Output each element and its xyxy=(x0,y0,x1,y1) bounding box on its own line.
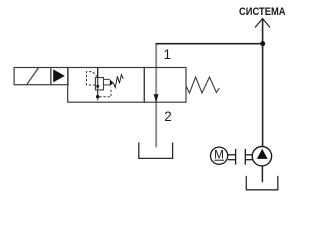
pilot actuator triangle xyxy=(53,69,65,82)
valve envelope left position xyxy=(68,68,145,103)
drain junction dot xyxy=(96,95,99,98)
pilot relief flow arrow xyxy=(96,78,100,90)
valve envelope right position xyxy=(144,68,186,103)
drain to port2 dashed line xyxy=(97,98,99,102)
svg-text:СИСТЕМА: СИСТЕМА xyxy=(239,6,286,18)
pilot relief valve inlet line xyxy=(97,68,99,78)
spring chamber drain dashed line xyxy=(99,88,111,97)
pilot sensing dashed line xyxy=(87,72,98,85)
port line 1-2 gray pipe xyxy=(155,44,157,147)
pump flow triangle xyxy=(257,149,268,159)
pilot relief outlet line xyxy=(97,90,99,96)
junction dot xyxy=(260,41,265,46)
bias spring xyxy=(186,77,220,93)
pump tank symbol xyxy=(246,176,277,190)
valve tank symbol xyxy=(139,143,173,159)
solenoid box Y1 xyxy=(14,68,51,85)
svg-text:2: 2 xyxy=(164,109,172,124)
svg-text:1: 1 xyxy=(164,47,172,62)
pilot spring arrowhead xyxy=(110,80,114,87)
pilot spring channel xyxy=(104,79,110,85)
electric motor M1 xyxy=(211,147,228,164)
pipe port1 to junction xyxy=(155,43,262,45)
system arrowhead xyxy=(255,19,270,28)
system riser pipe xyxy=(262,19,264,147)
hydraulic pump P1 xyxy=(252,147,271,166)
motor M underline xyxy=(214,159,224,161)
svg-text:M: M xyxy=(214,148,224,162)
pilot actuator box xyxy=(51,68,68,85)
pilot adjustable spring xyxy=(113,75,123,88)
pilot relief valve square xyxy=(95,78,103,90)
shaft coupling xyxy=(228,149,253,165)
main flow path arrow xyxy=(154,94,159,102)
pump suction pipe xyxy=(261,166,263,182)
